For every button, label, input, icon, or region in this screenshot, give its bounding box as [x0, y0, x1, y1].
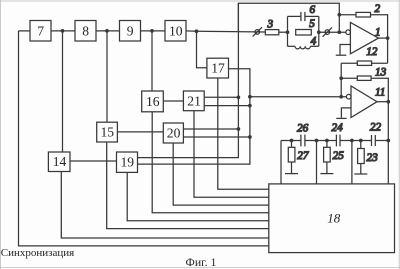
capacitor C22 — [372, 135, 376, 146]
svg-text:17: 17 — [211, 61, 225, 76]
svg-text:14: 14 — [53, 154, 67, 169]
node V2 opamp line — [248, 95, 252, 99]
svg-text:1: 1 — [375, 26, 381, 38]
svg-text:5: 5 — [309, 18, 315, 30]
wire 16 bottom to 18 — [152, 112, 269, 213]
ground (op-amp U11 non-inverting input) — [336, 108, 351, 119]
wire tank to opamp1 — [319, 31, 346, 33]
node R13 left — [339, 76, 343, 80]
node after 10 — [195, 29, 199, 33]
svg-text:12: 12 — [366, 46, 378, 58]
wire 7-8 — [51, 30, 75, 32]
resistor R25 — [324, 141, 331, 174]
resistor R2 — [339, 12, 387, 38]
wire op-amp U1 output — [379, 37, 388, 39]
block 7 — [30, 21, 51, 42]
wire 21 out1 — [204, 96, 238, 98]
node after 7 — [61, 29, 65, 33]
svg-text:15: 15 — [101, 125, 115, 140]
tank right rail — [318, 16, 320, 46]
svg-text:24: 24 — [332, 122, 344, 134]
svg-text:21: 21 — [187, 93, 201, 108]
svg-text:25: 25 — [333, 150, 345, 162]
ground (R27) — [285, 173, 298, 175]
node opamp11 input — [339, 95, 343, 99]
wire 21 bottom to 18 — [194, 111, 269, 198]
feedback loop rect top — [238, 3, 339, 32]
wire node B down — [316, 141, 318, 184]
wire 14 bottom to 18 — [61, 172, 268, 239]
block 14 — [48, 152, 70, 172]
svg-text:20: 20 — [167, 126, 181, 141]
svg-text:22: 22 — [370, 121, 382, 133]
node R27 top — [290, 139, 294, 143]
node V2 20out2 — [248, 135, 252, 139]
wire bus left end to 18 — [280, 141, 282, 184]
wire 15 bottom to 18 — [107, 142, 269, 229]
svg-text:Синхронизация: Синхронизация — [1, 247, 74, 259]
node opamp11 out — [386, 100, 390, 104]
svg-text:13: 13 — [375, 66, 387, 78]
block 19 — [117, 152, 138, 172]
node R25 top — [325, 139, 329, 143]
wire 17 right to V2 — [138, 69, 250, 164]
capacitor C26 — [301, 135, 305, 147]
svg-text:Фиг. 1: Фиг. 1 — [186, 255, 217, 269]
wire 9-node to 16 — [151, 31, 153, 91]
svg-text:26: 26 — [297, 123, 309, 135]
node tank right — [317, 30, 321, 34]
svg-text:27: 27 — [297, 150, 309, 162]
resistor R12 — [341, 61, 387, 65]
node bus right / opamp11 line — [386, 139, 390, 143]
wire sync left drop — [19, 31, 269, 246]
wire opamp1 out down to R12 — [387, 38, 389, 63]
svg-text:18: 18 — [327, 210, 341, 225]
wire op-amp U11 output — [377, 101, 388, 103]
svg-text:8: 8 — [82, 23, 89, 38]
block 9 — [120, 21, 141, 42]
wire main input row y=30.9 — [19, 30, 31, 32]
wire V1 feedback drop — [138, 3, 239, 157]
node after 9 — [150, 29, 154, 33]
resistor R5 — [296, 30, 312, 36]
wire 19 bottom to 18 — [127, 172, 269, 220]
svg-text:19: 19 — [121, 155, 135, 170]
svg-text:23: 23 — [367, 152, 379, 164]
wire 20 out2 — [183, 136, 250, 138]
wire 10 to resonant circuit — [186, 30, 197, 32]
connector break symbol right — [323, 27, 332, 36]
block 10 — [165, 21, 186, 42]
wire opamp11 out down — [387, 102, 389, 184]
wire R12/R13 left node — [340, 63, 342, 96]
node fb-resistor2 — [337, 13, 341, 17]
block 15 — [97, 122, 118, 142]
wire 10-node to 17 — [197, 31, 207, 68]
op-amp U1 — [346, 22, 379, 53]
wire node C down — [351, 141, 353, 184]
wire 8-node to 15 — [106, 31, 108, 122]
wire 14-19 — [70, 160, 117, 162]
svg-text:7: 7 — [37, 23, 44, 38]
wire 21 out2 — [204, 105, 250, 107]
capacitor C6 — [288, 12, 319, 21]
svg-text:6: 6 — [310, 4, 316, 16]
wire 7-node to 14 — [62, 31, 64, 152]
block 17 — [207, 58, 229, 78]
node opamp1 input — [337, 30, 341, 34]
wire 20 out1 — [183, 128, 238, 130]
ground (op-amp U1 non-inverting input) — [336, 45, 351, 56]
capacitor C24 — [336, 135, 340, 147]
wire 9-10 — [141, 30, 166, 32]
node V1 21out1 — [237, 95, 241, 99]
svg-text:4: 4 — [311, 35, 317, 47]
node V2 21out2 — [248, 104, 252, 108]
resistor R3 — [265, 30, 279, 35]
connector break symbol left — [253, 27, 262, 36]
resistor R27 — [288, 141, 295, 174]
svg-text:10: 10 — [169, 24, 183, 39]
op-amp U11 — [346, 86, 377, 118]
node opamp1 out — [386, 36, 390, 40]
block 8 — [75, 21, 96, 42]
resistor R23 — [358, 141, 365, 174]
node tank left — [286, 30, 290, 34]
node B to 18 — [315, 139, 319, 143]
wire 8-9 — [96, 30, 120, 32]
wire 20 bottom to 18 — [173, 143, 269, 205]
inductor L4 — [288, 46, 319, 49]
wire 17 bottom to 18 — [218, 78, 269, 189]
tank left rail — [287, 16, 289, 46]
svg-text:16: 16 — [146, 94, 160, 109]
RC bus wire — [281, 140, 301, 142]
node after 8 — [105, 29, 109, 33]
wire opamp11 input line — [250, 96, 347, 98]
block 21 — [183, 91, 204, 111]
svg-text:3: 3 — [267, 19, 274, 31]
block 20 — [163, 123, 183, 143]
resistor R13 — [341, 76, 388, 102]
wire 16-21 — [163, 100, 183, 102]
block 16 — [142, 91, 164, 112]
svg-text:11: 11 — [375, 87, 385, 99]
node V1 20out1 — [237, 127, 241, 131]
ground (R25) — [320, 173, 333, 175]
svg-text:2: 2 — [375, 3, 381, 15]
svg-text:9: 9 — [127, 24, 134, 39]
wire 15-20 — [117, 131, 163, 133]
node C to 18 — [350, 139, 354, 143]
block 18 — [269, 184, 395, 253]
node R23 top — [359, 139, 363, 143]
ground (R23) — [354, 173, 367, 175]
